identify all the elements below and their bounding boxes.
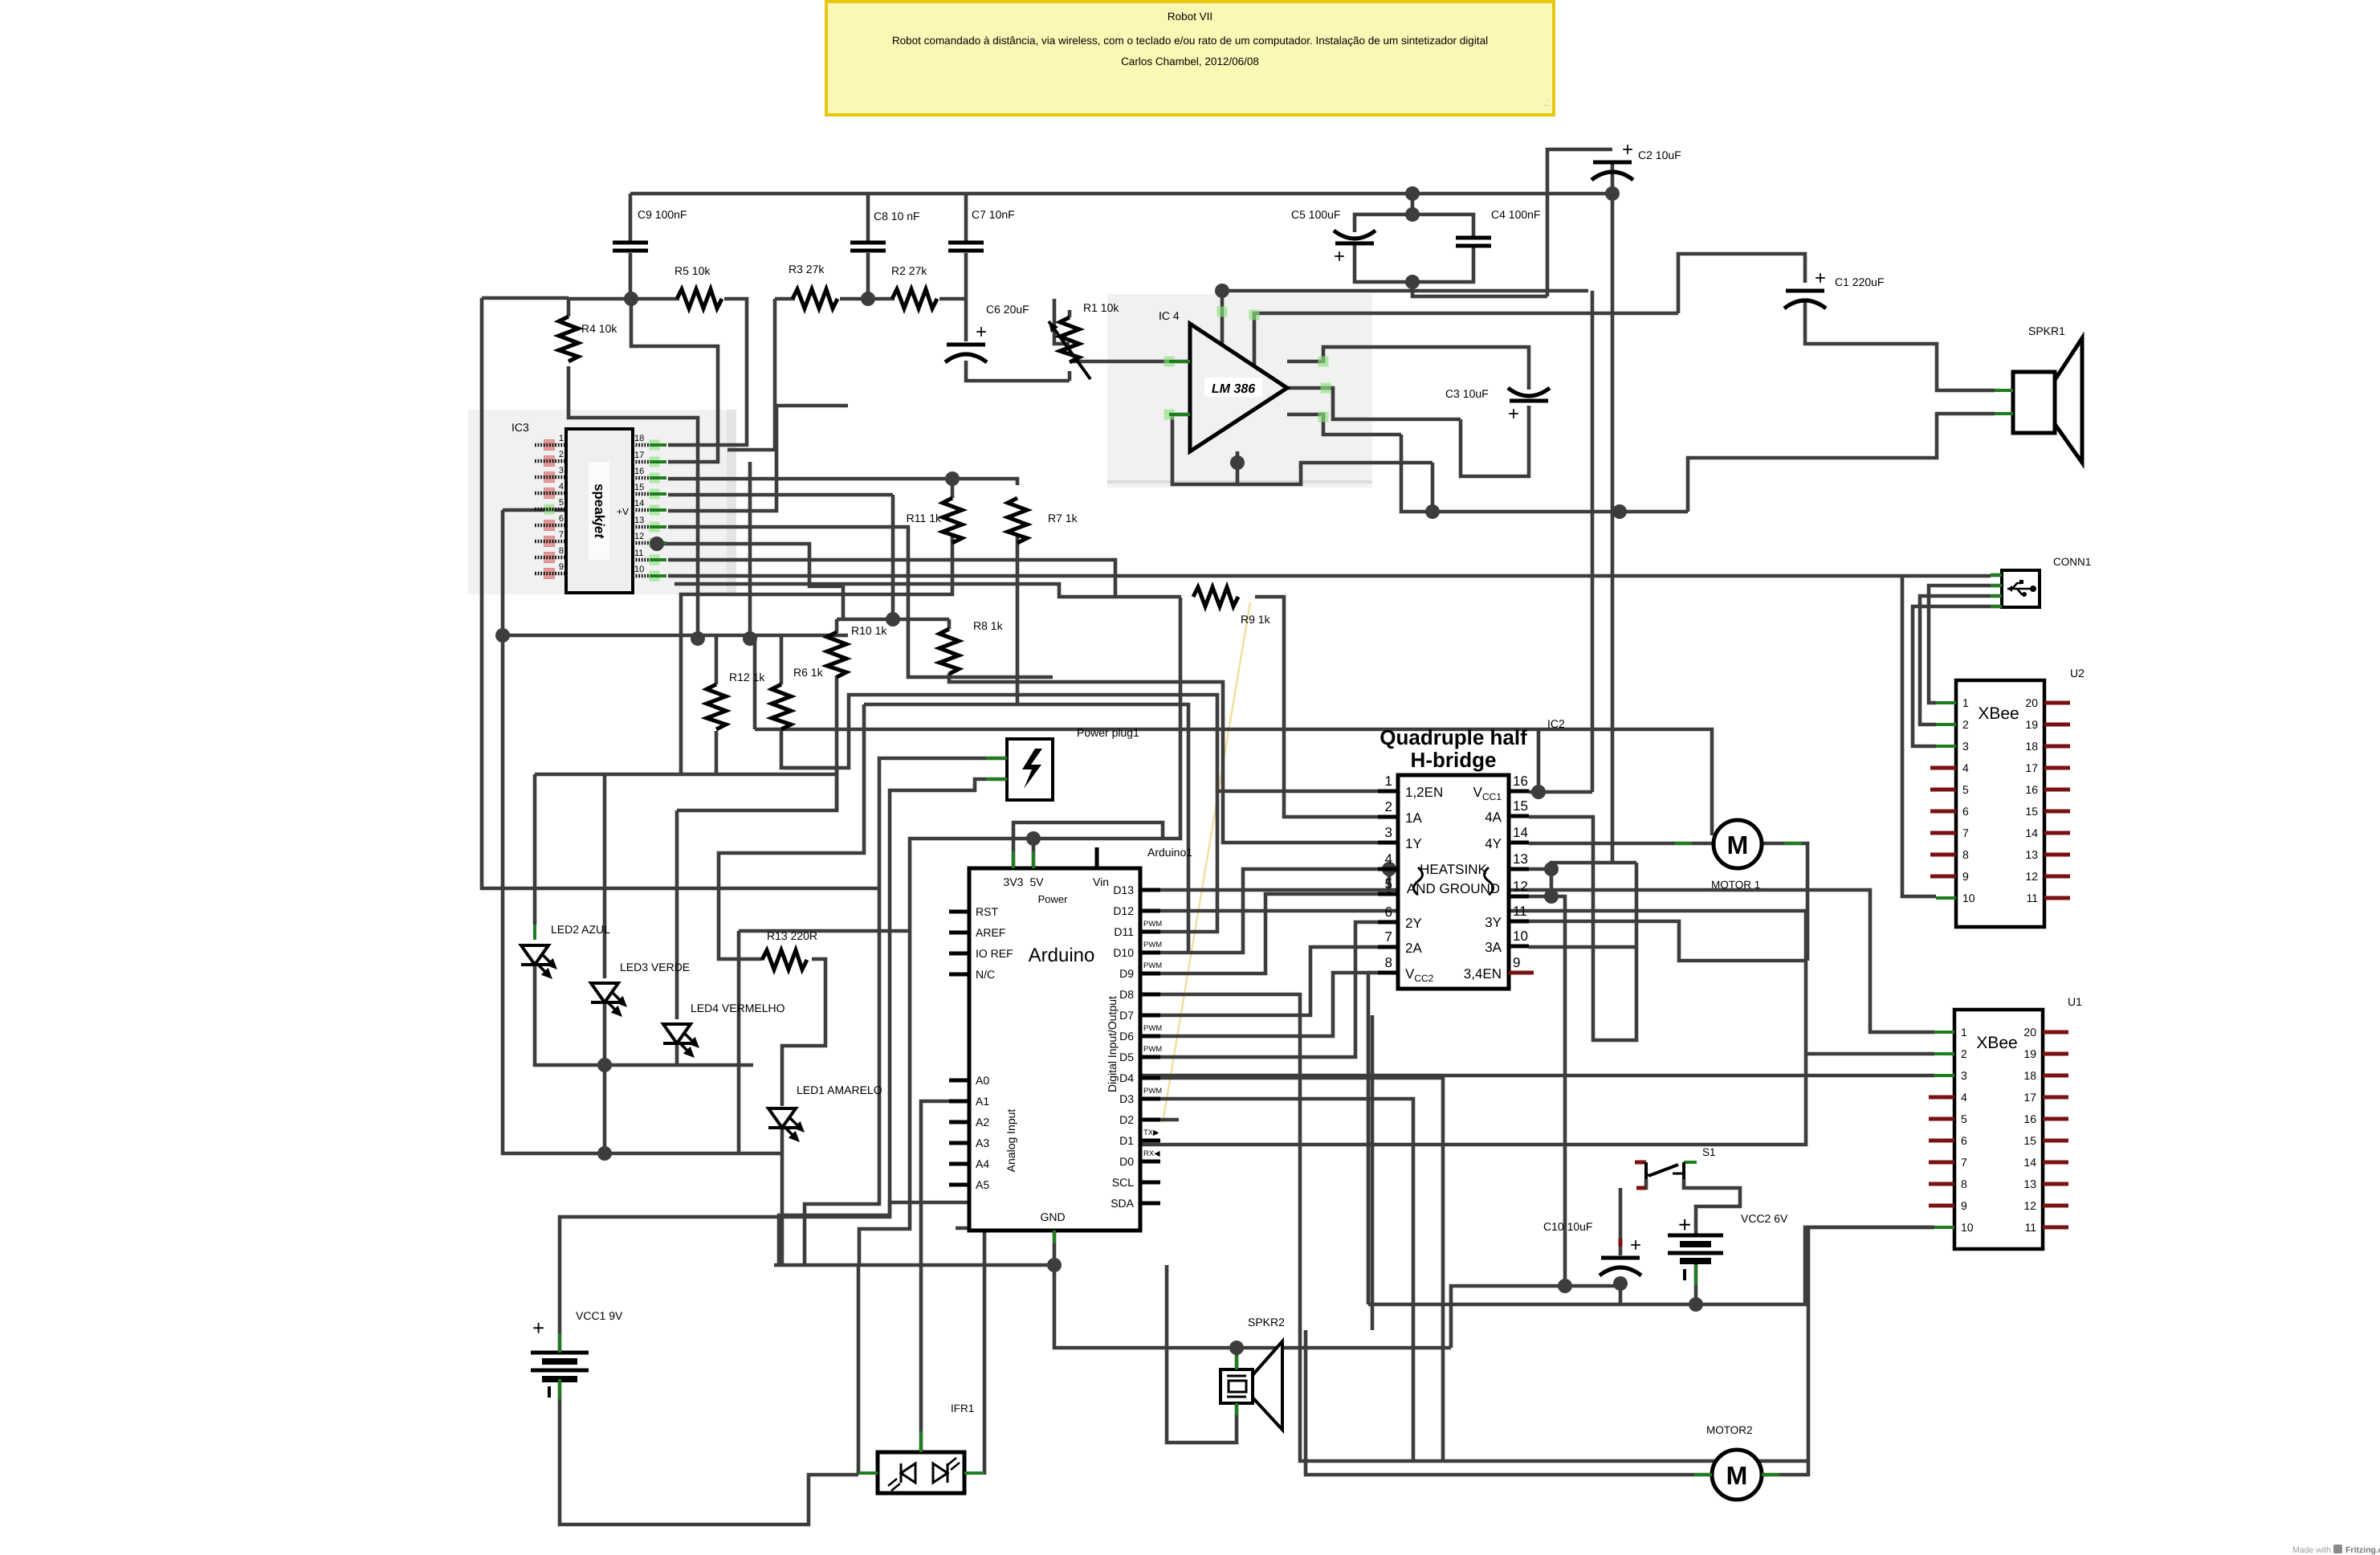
junction R11 top bbox=[945, 471, 960, 486]
wire C3 bottom loop bbox=[1461, 406, 1529, 476]
LED LED2 AZUL bbox=[521, 945, 548, 965]
svg-text:9: 9 bbox=[1962, 870, 1969, 883]
svg-text:4A: 4A bbox=[1485, 810, 1502, 825]
svg-text:17: 17 bbox=[2023, 1091, 2036, 1104]
svg-text:R11 1k: R11 1k bbox=[907, 512, 942, 524]
XBee U1 pin 11 bbox=[2043, 1226, 2068, 1230]
wire R10R8 top link bbox=[837, 618, 949, 622]
wire D11 to 12EN bbox=[1160, 791, 1398, 932]
wire VCC1 up bbox=[1537, 729, 1541, 792]
junction C10 bbox=[1613, 1276, 1628, 1291]
wire R12 bottom bbox=[715, 731, 719, 774]
wire R6 bottom row865 bbox=[781, 695, 1217, 791]
junction SPKR2 top bbox=[1229, 1341, 1244, 1355]
wire IC4 bottom out bbox=[1237, 463, 1432, 484]
svg-text:1A: 1A bbox=[1405, 810, 1422, 826]
svg-text:20: 20 bbox=[2023, 1026, 2036, 1039]
svg-text:HEATSINK: HEATSINK bbox=[1420, 862, 1487, 877]
junction R10 R8 bbox=[886, 612, 900, 626]
potentiometer R1 bbox=[1060, 317, 1079, 362]
wire D9 to pin5 bbox=[1160, 894, 1398, 973]
svg-text:SDA: SDA bbox=[1111, 1197, 1134, 1210]
wire plug pin2 down bbox=[779, 779, 1007, 1265]
svg-text:D6: D6 bbox=[1119, 1030, 1134, 1043]
wire LED2 bottom bbox=[535, 966, 605, 1065]
svg-text:14: 14 bbox=[634, 499, 644, 508]
wire GND row bbox=[774, 1263, 1054, 1267]
svg-text:1: 1 bbox=[1961, 1026, 1967, 1039]
capacitor C9 bbox=[613, 241, 648, 245]
svg-text:LED2 AZUL: LED2 AZUL bbox=[551, 923, 610, 936]
IC2 pin 15 bbox=[1509, 814, 1529, 818]
svg-text:XBee: XBee bbox=[1978, 704, 2019, 723]
svg-text:10: 10 bbox=[1513, 929, 1528, 944]
wire C4 top lead bbox=[1412, 214, 1473, 239]
svg-text:LED1 AMARELO: LED1 AMARELO bbox=[797, 1084, 882, 1096]
svg-text:2: 2 bbox=[1961, 1047, 1967, 1060]
wire drop 1133 bbox=[859, 931, 910, 1265]
svg-text:Made with: Made with bbox=[2292, 1545, 2331, 1555]
wire pin12 down long bbox=[1551, 896, 1565, 1286]
XBee U2 pin 4 bbox=[1930, 766, 1956, 770]
svg-text:R10 1k: R10 1k bbox=[851, 624, 887, 637]
wire bus y727 bbox=[674, 584, 1114, 597]
svg-text:IC3: IC3 bbox=[511, 421, 529, 434]
wire C7 bottom lead bbox=[964, 253, 968, 299]
svg-text:16: 16 bbox=[2023, 1112, 2036, 1125]
wire C5 top lead bbox=[1355, 194, 1412, 232]
svg-text:6: 6 bbox=[1961, 1134, 1967, 1147]
wire C4 bottom lead bbox=[1412, 247, 1473, 282]
wire C2 bottom lead bbox=[1611, 162, 1615, 194]
svg-text:CONN1: CONN1 bbox=[2053, 556, 2091, 568]
svg-text:C7 10nF: C7 10nF bbox=[972, 208, 1015, 221]
svg-text:20: 20 bbox=[2025, 696, 2038, 709]
IC3 pin 2 bbox=[544, 456, 555, 467]
svg-text:D10: D10 bbox=[1113, 946, 1134, 959]
svg-text:D12: D12 bbox=[1113, 904, 1134, 917]
svg-text:8: 8 bbox=[559, 546, 564, 556]
svg-text:8: 8 bbox=[1962, 848, 1969, 861]
LED LED4 VERMELHO bbox=[663, 1024, 691, 1043]
svg-text:13: 13 bbox=[2023, 1177, 2036, 1190]
XBee U2 pin 2 bbox=[1936, 723, 1956, 726]
IC2 pin 9 bbox=[1509, 971, 1534, 975]
XBee U2 pin 17 bbox=[2044, 766, 2070, 770]
IC2 pin 12 bbox=[1509, 895, 1529, 899]
svg-text:4: 4 bbox=[1385, 851, 1392, 867]
IC2 pin 7 bbox=[1378, 945, 1398, 949]
junction C9-R5 bbox=[624, 292, 638, 306]
wire CONN1 pin3 to U2p2 bbox=[1920, 596, 2002, 724]
wire D6 route bbox=[1160, 973, 1398, 1036]
svg-text:MOTOR 1: MOTOR 1 bbox=[1711, 879, 1760, 891]
wire GND pin bbox=[1053, 1231, 1057, 1265]
IC2 pin 13 bbox=[1509, 867, 1529, 871]
resistor R6 bbox=[772, 684, 791, 729]
IC3 pin 3 bbox=[544, 472, 555, 483]
wire R10 bottom bbox=[835, 675, 839, 810]
wire LED4 top bbox=[675, 810, 679, 1019]
Arduino pin AREF bbox=[949, 931, 969, 935]
svg-text:Power plug1: Power plug1 bbox=[1077, 726, 1139, 739]
svg-text:11: 11 bbox=[2026, 892, 2038, 904]
svg-text:3: 3 bbox=[559, 466, 564, 475]
wire R9 right to 1A bbox=[1255, 597, 1398, 817]
svg-text:5: 5 bbox=[1961, 1112, 1967, 1125]
svg-text:PWM: PWM bbox=[1143, 1087, 1162, 1096]
Arduino pin A4 bbox=[949, 1162, 969, 1166]
IC3 pin 16 bbox=[650, 473, 660, 484]
svg-text:7: 7 bbox=[1962, 826, 1969, 839]
wire to R7 top bbox=[952, 479, 1017, 485]
svg-text:R13 220R: R13 220R bbox=[767, 929, 817, 942]
svg-text:14: 14 bbox=[2023, 1156, 2036, 1169]
wire VCC2pin down bbox=[1368, 973, 1398, 1304]
wire row 1009-956 bbox=[677, 768, 837, 810]
wire down to R10R8 bbox=[891, 495, 895, 619]
IC3 pin 6 bbox=[544, 520, 555, 531]
svg-text:R6 1k: R6 1k bbox=[793, 666, 824, 679]
wire D13 to U1 pin1 bbox=[1160, 890, 1934, 1032]
svg-text:Carlos Chambel, 2012/06/08: Carlos Chambel, 2012/06/08 bbox=[1121, 55, 1259, 67]
XBee U1 pin 13 bbox=[2043, 1182, 2068, 1186]
wire R3 left drop bbox=[727, 299, 775, 450]
wire LED4 bottom row bbox=[605, 1063, 753, 1067]
wire LED3 bottom bbox=[603, 1004, 607, 1065]
XBee U1 pin 15 bbox=[2043, 1139, 2068, 1143]
wire R8 bottom to 1Y bbox=[949, 673, 1398, 843]
wire LED row 964 bbox=[535, 773, 837, 777]
svg-text:+: + bbox=[532, 1316, 544, 1340]
IC2 pin 5 bbox=[1378, 892, 1398, 896]
wire pin13 row bbox=[668, 527, 1053, 677]
svg-text:2Y: 2Y bbox=[1405, 916, 1422, 931]
CONN1 pin 2 bbox=[1991, 584, 2002, 587]
svg-text:R4 10k: R4 10k bbox=[581, 322, 617, 335]
svg-text:C3 10uF: C3 10uF bbox=[1445, 387, 1489, 400]
XBee U2 pin 9 bbox=[1930, 875, 1956, 879]
Arduino pin D5 bbox=[1140, 1055, 1160, 1059]
wire C10 bottom lead bbox=[1619, 1277, 1623, 1304]
svg-text:+: + bbox=[1630, 1235, 1641, 1256]
capacitor C2 bbox=[1593, 161, 1632, 165]
capacitor C4 bbox=[1456, 236, 1491, 240]
svg-text:18: 18 bbox=[2025, 740, 2038, 753]
junction 5V top bbox=[1026, 831, 1041, 846]
IC3 pin 18 bbox=[650, 440, 660, 451]
resistor R11 bbox=[943, 498, 962, 543]
svg-text:4: 4 bbox=[1962, 761, 1969, 774]
XBee U2 pin 3 bbox=[1936, 745, 1956, 748]
resistor R4 bbox=[559, 316, 578, 361]
junction LED bottoms bbox=[597, 1058, 612, 1072]
junction IC4 bottom bbox=[1230, 455, 1245, 470]
svg-text:GND: GND bbox=[1040, 1210, 1065, 1223]
svg-text:+: + bbox=[1622, 139, 1633, 161]
svg-text:2A: 2A bbox=[1405, 941, 1422, 956]
wire S1 to VCC2 bbox=[1684, 1179, 1740, 1235]
svg-text:6: 6 bbox=[1385, 904, 1392, 920]
svg-text:12: 12 bbox=[1513, 879, 1528, 894]
Arduino pin A0 bbox=[949, 1079, 969, 1083]
svg-text:A4: A4 bbox=[976, 1157, 989, 1170]
capacitor C1 bbox=[1786, 289, 1824, 293]
wire IFR1 top lead bbox=[919, 1443, 923, 1452]
wire U1 pin2 lead bbox=[1806, 1052, 1934, 1056]
svg-text:3,4EN: 3,4EN bbox=[1464, 966, 1502, 982]
wire D0 RX bbox=[1124, 1145, 1160, 1161]
svg-text:9: 9 bbox=[1513, 955, 1520, 970]
svg-text:19: 19 bbox=[2025, 718, 2038, 731]
svg-text:5V: 5V bbox=[1029, 875, 1044, 888]
svg-text:PWM: PWM bbox=[1143, 1045, 1162, 1054]
wire C8 top lead bbox=[866, 194, 870, 243]
wire R2 right lead bbox=[939, 297, 966, 301]
wire bus to CONN1 bbox=[1114, 574, 1991, 578]
XBee U2 pin 18 bbox=[2044, 745, 2070, 749]
svg-text:Analog Input: Analog Input bbox=[1005, 1109, 1017, 1173]
resistor R8 bbox=[939, 629, 959, 674]
resistor R10 bbox=[827, 632, 846, 677]
svg-text:15: 15 bbox=[2025, 805, 2038, 818]
svg-text:8: 8 bbox=[1961, 1177, 1967, 1190]
svg-text:IC 4: IC 4 bbox=[1159, 309, 1180, 322]
wire D10 to pin4 bbox=[1160, 869, 1398, 953]
wire R5 right to IC3 pin18 bbox=[668, 299, 747, 445]
XBee U1 pin 8 bbox=[1929, 1182, 1954, 1186]
wire SPKR2 top lead bbox=[1235, 1348, 1239, 1369]
wire LED3 top bbox=[603, 774, 607, 978]
svg-text:2: 2 bbox=[559, 450, 564, 459]
svg-text:D8: D8 bbox=[1119, 988, 1134, 1001]
CONN1 pin 1 bbox=[1991, 573, 2002, 577]
wire R6 top lead bbox=[780, 635, 784, 684]
XBee U1 pin 14 bbox=[2043, 1161, 2068, 1165]
svg-text:13: 13 bbox=[1513, 851, 1528, 867]
wire CONN1 pin2 to U2p1 bbox=[1929, 586, 2002, 703]
wire 3Y route bbox=[1529, 921, 1807, 961]
wire R4 bottom route bbox=[569, 366, 698, 639]
svg-text:15: 15 bbox=[1513, 798, 1528, 814]
svg-text:3V3: 3V3 bbox=[1004, 875, 1024, 888]
svg-text:4: 4 bbox=[1961, 1091, 1967, 1104]
XBee U1 pin 1 bbox=[1934, 1031, 1954, 1034]
wire drop 940 bbox=[753, 639, 757, 729]
wire 4Y to motor1 bbox=[1529, 842, 1714, 846]
svg-text:IFR1: IFR1 bbox=[951, 1402, 974, 1414]
Arduino pin D2 bbox=[1140, 1118, 1160, 1122]
svg-text:C10 10uF: C10 10uF bbox=[1543, 1220, 1592, 1233]
wire C8 bottom lead bbox=[866, 253, 870, 299]
svg-text:7: 7 bbox=[559, 530, 564, 540]
wire R12R6 top row bbox=[503, 634, 848, 638]
wire R13 right to LED1 bbox=[782, 959, 825, 1106]
svg-text:9: 9 bbox=[559, 562, 564, 572]
svg-text:M: M bbox=[1726, 1461, 1748, 1490]
svg-text:D7: D7 bbox=[1119, 1009, 1134, 1022]
wire D8 down long bbox=[1160, 994, 1808, 1461]
CONN1 pin 3 bbox=[1991, 594, 2002, 598]
svg-text:4: 4 bbox=[559, 482, 564, 492]
XBee U1 pin 19 bbox=[2043, 1052, 2068, 1056]
junction pin5 rail bbox=[495, 628, 510, 643]
svg-text:D1: D1 bbox=[1119, 1134, 1134, 1147]
capacitor C7 bbox=[948, 241, 984, 245]
wire pin10 row bus bbox=[668, 574, 1114, 578]
XBee U1 pin 17 bbox=[2043, 1096, 2068, 1100]
svg-text:SPKR1: SPKR1 bbox=[2028, 324, 2065, 337]
svg-text:AND GROUND: AND GROUND bbox=[1407, 881, 1500, 896]
svg-text:D2: D2 bbox=[1119, 1113, 1134, 1126]
svg-text:12: 12 bbox=[2025, 870, 2038, 883]
svg-text:D4: D4 bbox=[1119, 1071, 1134, 1084]
svg-text:13: 13 bbox=[2025, 848, 2038, 861]
XBee U1 pin 7 bbox=[1929, 1161, 1954, 1165]
Arduino pin IO REF bbox=[949, 952, 969, 956]
svg-text:D9: D9 bbox=[1119, 967, 1134, 980]
wire C2 top route bbox=[1547, 149, 1612, 296]
Arduino pin D4 bbox=[1140, 1076, 1160, 1080]
junction R3-R2-C8 bbox=[861, 292, 875, 306]
Arduino pin D10 bbox=[1140, 951, 1160, 955]
XBee U1 pin 5 bbox=[1929, 1117, 1954, 1121]
svg-text:Digital Input/Output: Digital Input/Output bbox=[1106, 996, 1119, 1092]
wire R3 left lead bbox=[775, 297, 795, 301]
svg-text:A1: A1 bbox=[976, 1095, 989, 1108]
wire pin13 lead bbox=[1529, 867, 1551, 871]
XBee U2 pin 19 bbox=[2044, 723, 2070, 727]
svg-text:PWM: PWM bbox=[1143, 1024, 1162, 1033]
wire bus to C10 bbox=[1451, 1286, 1620, 1348]
svg-text:3: 3 bbox=[1961, 1069, 1967, 1082]
wire VCC1 right bbox=[1538, 790, 1592, 794]
svg-text:Vin: Vin bbox=[1093, 875, 1109, 888]
IC2 pin 4 bbox=[1378, 867, 1398, 871]
svg-text:3A: 3A bbox=[1485, 940, 1502, 955]
svg-text:12: 12 bbox=[634, 532, 644, 541]
svg-text:2: 2 bbox=[1962, 718, 1969, 731]
Arduino pin A3 bbox=[949, 1141, 969, 1145]
svg-text:5: 5 bbox=[1385, 876, 1392, 892]
svg-text:U2: U2 bbox=[2070, 667, 2085, 680]
svg-text:speakjet: speakjet bbox=[592, 484, 607, 539]
svg-text:11: 11 bbox=[1513, 904, 1527, 919]
wire C5C4 to right bbox=[1412, 282, 1547, 296]
wire R13 feed bbox=[719, 704, 864, 959]
wire pin5 left bbox=[503, 508, 569, 512]
wire C2 junction down bbox=[1611, 194, 1615, 512]
junction pin4 bbox=[1382, 862, 1396, 876]
svg-text:+V: +V bbox=[617, 506, 629, 517]
wire R4 top lead bbox=[567, 299, 571, 316]
IC3 pin 10 bbox=[650, 571, 660, 582]
svg-text:+: + bbox=[1334, 246, 1345, 267]
capacitor C3 bbox=[1508, 388, 1550, 396]
svg-text:16: 16 bbox=[1513, 773, 1528, 789]
wire R1 top stub bbox=[1068, 310, 1072, 317]
svg-text:5: 5 bbox=[559, 498, 564, 508]
XBee U2 pin 14 bbox=[2044, 831, 2070, 835]
svg-text:TX▶: TX▶ bbox=[1143, 1128, 1159, 1137]
svg-text:17: 17 bbox=[634, 451, 644, 460]
svg-text:S1: S1 bbox=[1702, 1146, 1716, 1158]
junction top bus C2 bbox=[1605, 186, 1620, 201]
IC2 pin 8 bbox=[1378, 971, 1398, 975]
Arduino pin N/C bbox=[949, 973, 969, 977]
svg-text:R8 1k: R8 1k bbox=[973, 619, 1004, 632]
note box bbox=[826, 2, 1554, 115]
svg-text:PWM: PWM bbox=[1143, 961, 1162, 970]
svg-text:18: 18 bbox=[634, 434, 644, 443]
capacitor C10 bbox=[1601, 1256, 1640, 1260]
svg-text:.:: .: bbox=[1543, 96, 1550, 108]
svg-text:R12 1k: R12 1k bbox=[729, 671, 765, 684]
wire R3-C8 row bbox=[840, 297, 895, 301]
wire U1 pin2 route bbox=[1103, 1054, 1806, 1145]
IC2 pin 1 bbox=[1378, 790, 1398, 794]
wire motor2 left route bbox=[1306, 1330, 1714, 1475]
svg-text:C2 10uF: C2 10uF bbox=[1638, 149, 1681, 161]
svg-text:3: 3 bbox=[1385, 825, 1392, 840]
Arduino top pins bbox=[1095, 847, 1099, 868]
resistor R9 bbox=[1193, 587, 1238, 606]
wire IFR1 left up bbox=[857, 1265, 861, 1475]
svg-text:VCC1 9V: VCC1 9V bbox=[576, 1309, 623, 1322]
wire VCC1 plus route bbox=[560, 1202, 1098, 1353]
wire long right vertical bbox=[1591, 291, 1595, 792]
junction gnd bus 2 bbox=[1612, 504, 1627, 519]
XBee U1 pin 10 bbox=[1934, 1226, 1954, 1229]
svg-text:2: 2 bbox=[1385, 799, 1392, 814]
junction pin12 bbox=[1544, 889, 1559, 904]
svg-text:6: 6 bbox=[1962, 805, 1969, 818]
CONN1 pin 4 bbox=[1991, 605, 2002, 608]
power plug1 bbox=[1007, 739, 1053, 800]
wire LED net right bbox=[605, 1152, 782, 1156]
XBee U1 pin 3 bbox=[1934, 1074, 1954, 1077]
svg-text:Arduino: Arduino bbox=[1029, 945, 1095, 966]
IC3 pin 17 bbox=[650, 457, 660, 467]
Arduino pin D0 bbox=[1140, 1160, 1160, 1164]
junction pin12 net bbox=[1558, 1279, 1572, 1293]
svg-text:XBee: XBee bbox=[1976, 1034, 2017, 1052]
svg-text:10: 10 bbox=[634, 565, 644, 574]
wire GND to SPKR2 row bbox=[1054, 1265, 1451, 1348]
svg-text:15: 15 bbox=[634, 483, 644, 492]
svg-text:LED3 VERDE: LED3 VERDE bbox=[620, 961, 690, 973]
Arduino pin D8 bbox=[1140, 993, 1160, 997]
IC2 pin 16 bbox=[1509, 790, 1529, 794]
svg-text:Robot VII: Robot VII bbox=[1168, 10, 1212, 22]
svg-text:A3: A3 bbox=[976, 1137, 989, 1149]
wire D3 down bbox=[1160, 1099, 1413, 1461]
IC3 pin 1 bbox=[544, 440, 555, 451]
wire IC4 out mid bbox=[1287, 388, 1461, 419]
IC3 pin 12 bbox=[650, 538, 660, 549]
wire CONN1 pin4 to U2p3 bbox=[1913, 606, 2002, 746]
IC3 pin 9 bbox=[544, 569, 555, 579]
wire CONN1 pin1 bbox=[1991, 573, 2002, 578]
wire C9 top lead bbox=[629, 194, 633, 243]
svg-text:RST: RST bbox=[976, 905, 998, 918]
wire 4A-3A loop bbox=[1529, 817, 1636, 1040]
XBee U1 pin 20 bbox=[2043, 1031, 2068, 1035]
svg-text:16: 16 bbox=[2025, 783, 2038, 796]
svg-text:IC2: IC2 bbox=[1547, 717, 1565, 730]
svg-text:+: + bbox=[1508, 403, 1519, 425]
svg-text:LM 386: LM 386 bbox=[1212, 382, 1255, 396]
